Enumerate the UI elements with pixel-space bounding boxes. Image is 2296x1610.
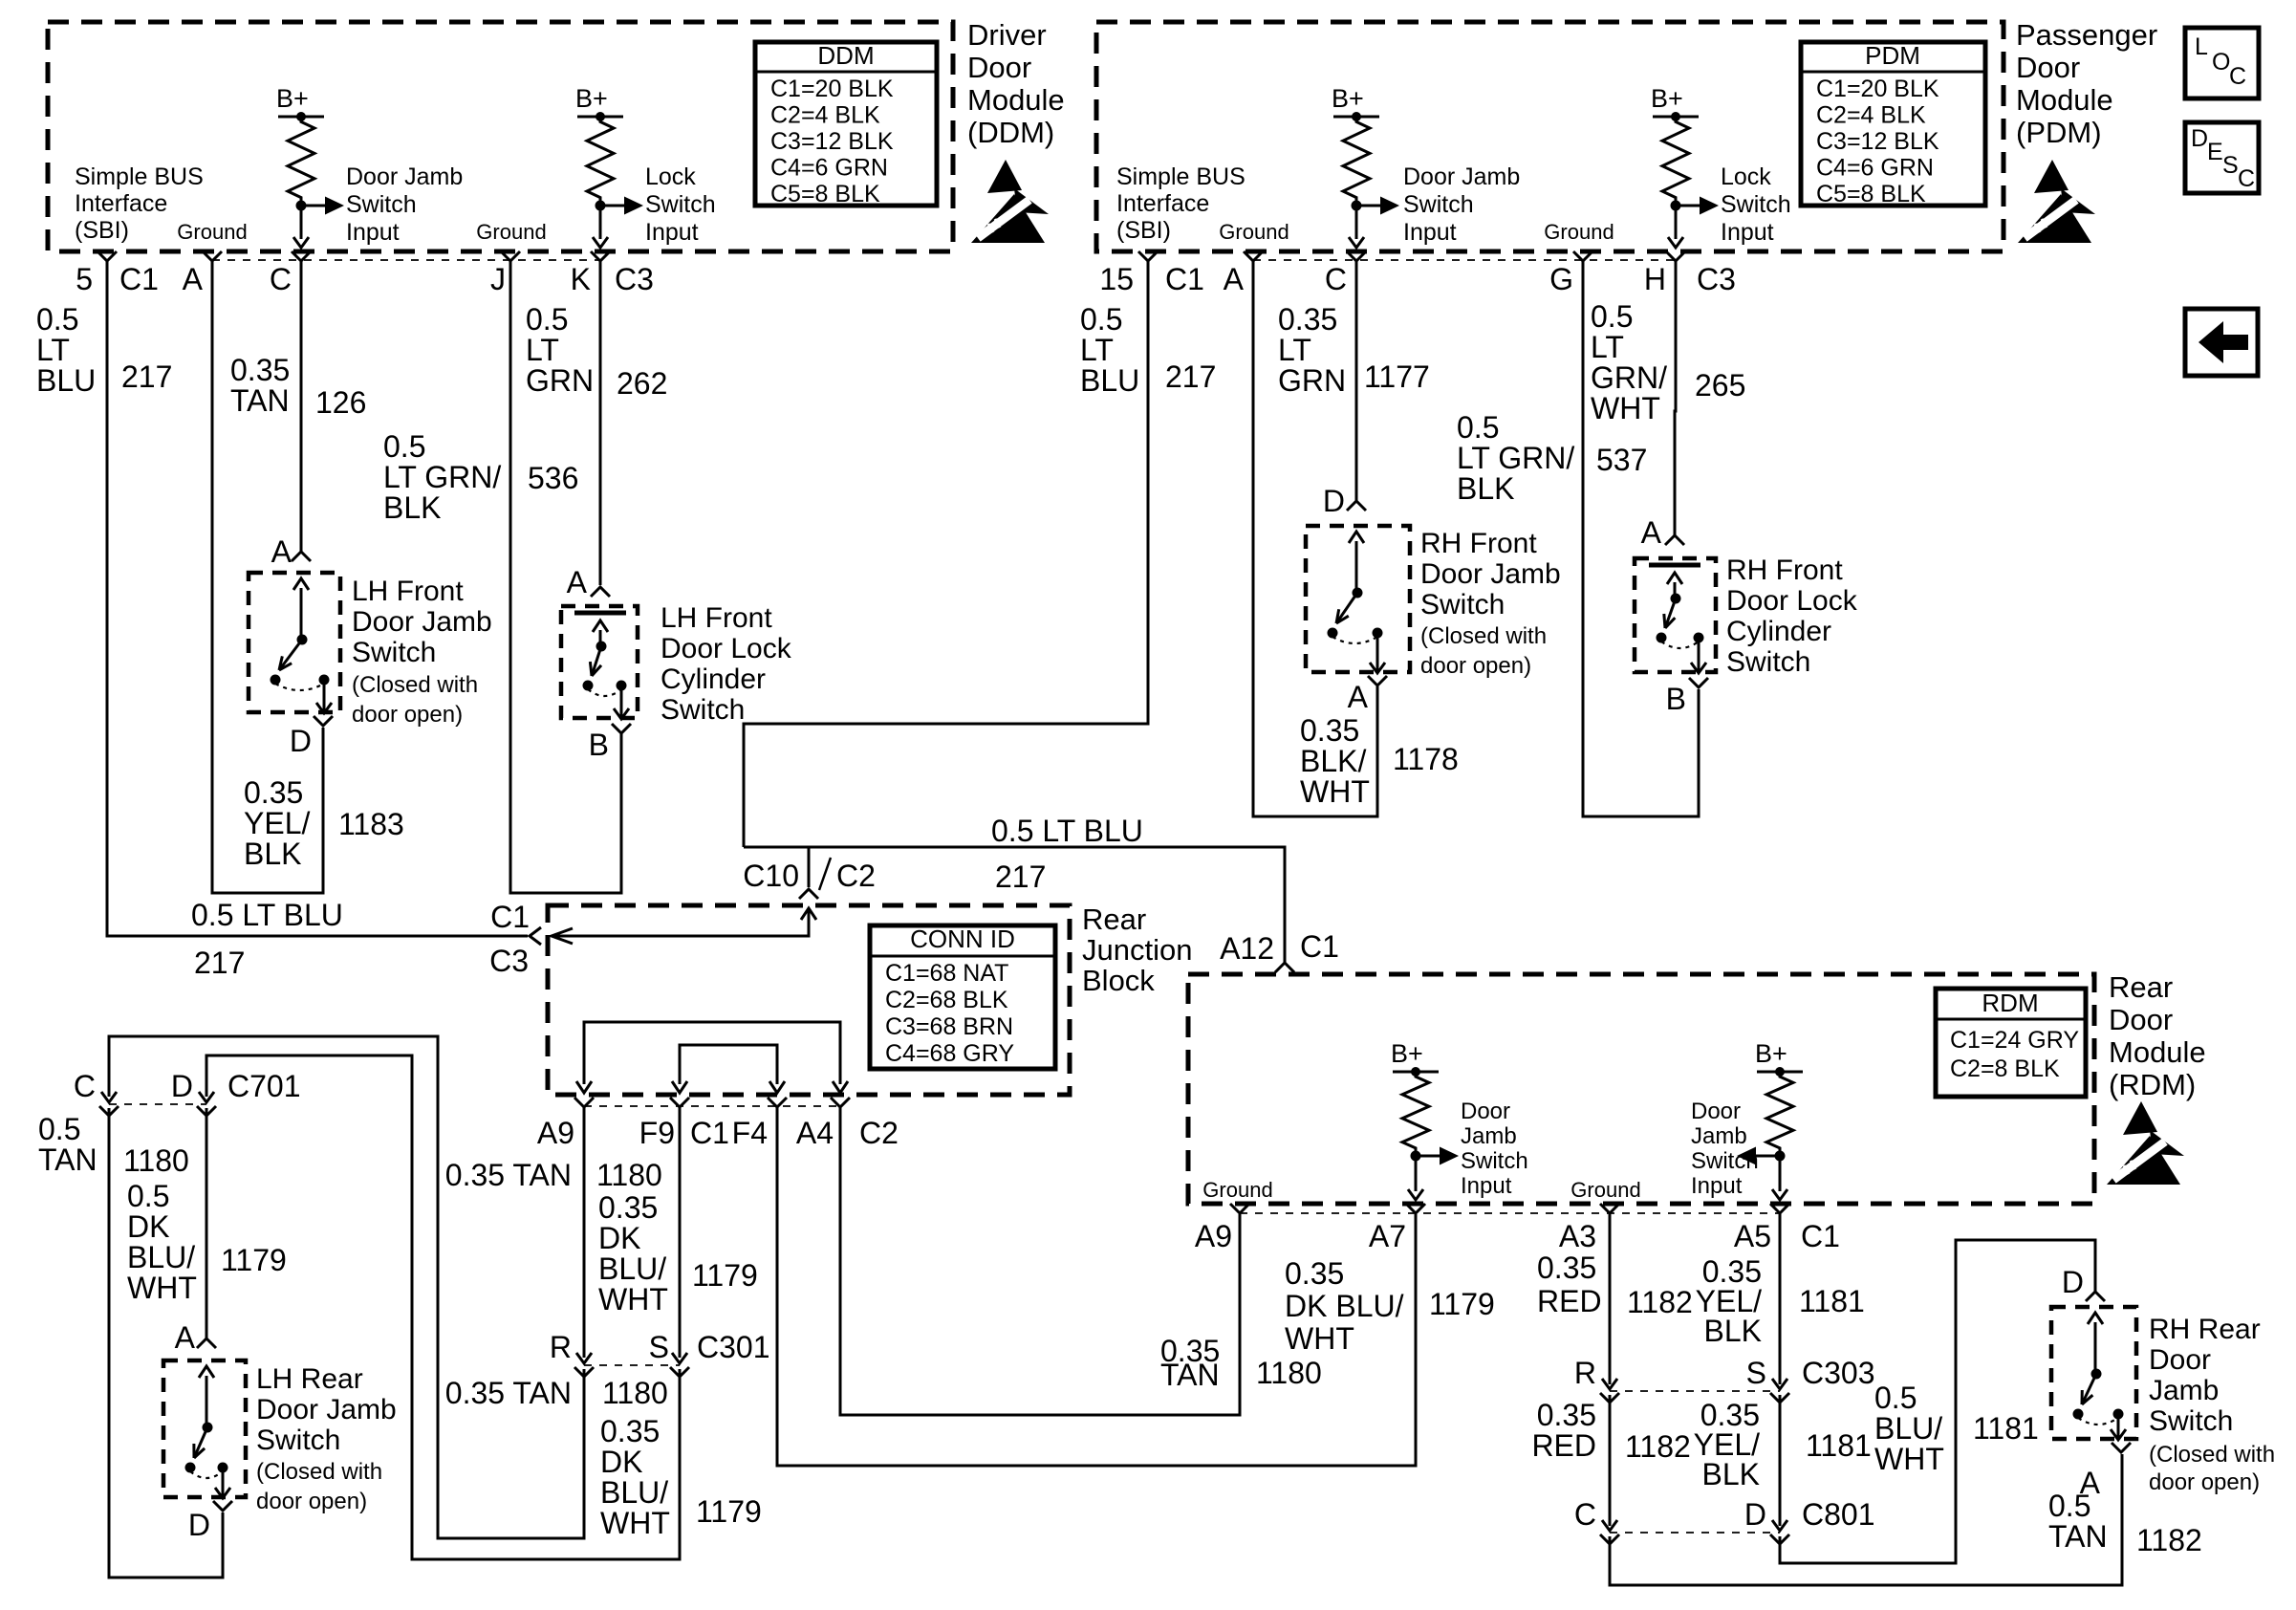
switch LH Front Door Jamb Switch [249, 573, 340, 713]
svg-text:(RDM): (RDM) [2109, 1068, 2196, 1101]
svg-text:C2=68 BLK: C2=68 BLK [885, 987, 1008, 1013]
text 0.5 LT BLU label (horizontal run) [191, 898, 343, 932]
svg-text:Door Jamb: Door Jamb [1420, 558, 1561, 590]
text pin D label (RH front jamb switch) [1323, 484, 1345, 518]
svg-text:0.35: 0.35 [598, 1190, 658, 1225]
node RDM pin A12/C1 chevron [1275, 963, 1294, 972]
wire C303 R to C801 C [1609, 1395, 1612, 1526]
module Rear Junction Block dashed outline [548, 905, 1070, 1095]
text 0.5 LT BLU label (PDM pin 15 wire) [1080, 302, 1139, 398]
resistor DDM lock switch input pull-up [587, 117, 614, 203]
wire arrow Lock Switch Input (PDM) [1676, 197, 1719, 215]
svg-text:GRN: GRN [1278, 363, 1346, 398]
svg-text:WHT: WHT [1874, 1442, 1944, 1476]
text C label (C801) [1574, 1497, 1596, 1532]
svg-text:B+: B+ [1332, 84, 1364, 113]
svg-text:LH Front: LH Front [352, 576, 464, 607]
text 1182 circuit label (A3 wire) [1627, 1285, 1693, 1319]
text 1182 circuit label (below R C303) [1625, 1429, 1691, 1464]
text 217 circuit label (horizontal run) [194, 946, 245, 980]
wire C303 S to C801 D [1779, 1395, 1782, 1526]
svg-text:0.35: 0.35 [1537, 1398, 1596, 1432]
svg-text:B: B [589, 728, 609, 762]
svg-text:Driver: Driver [967, 18, 1047, 52]
svg-text:Switch: Switch [1461, 1148, 1528, 1174]
svg-text:Junction: Junction [1082, 933, 1192, 967]
svg-text:Switch: Switch [2149, 1405, 2233, 1437]
svg-text:(SBI): (SBI) [75, 217, 129, 244]
text closed with door open (LH front jamb) [352, 672, 478, 728]
text Lock Switch Input (DDM) [645, 163, 716, 246]
svg-text:BLU: BLU [1080, 363, 1139, 398]
svg-text:(Closed with: (Closed with [2149, 1442, 2275, 1468]
svg-text:RED: RED [1537, 1284, 1602, 1318]
svg-text:C1=24 GRY: C1=24 GRY [1950, 1027, 2079, 1054]
svg-text:0.5: 0.5 [38, 1112, 80, 1146]
svg-text:C1: C1 [1300, 929, 1339, 964]
svg-text:C301: C301 [697, 1330, 770, 1364]
svg-text:TAN: TAN [38, 1142, 97, 1177]
svg-text:C2=8 BLK: C2=8 BLK [1950, 1055, 2060, 1082]
node junction dot below RDM right resistor [1775, 1151, 1786, 1162]
svg-text:Ground: Ground [177, 220, 247, 244]
svg-text:1182: 1182 [1627, 1285, 1693, 1319]
wire S to bottom loop to C701 D wire [206, 1055, 680, 1559]
svg-text:Jamb: Jamb [2149, 1375, 2219, 1406]
svg-text:0.35: 0.35 [1285, 1256, 1344, 1291]
text pin B label (RH lock cylinder switch) [1666, 682, 1686, 716]
text RDM pin label A9 [1195, 1219, 1232, 1253]
svg-text:A5: A5 [1734, 1219, 1771, 1253]
wire DDM pin A ground loop to LH front jamb switch pin D [212, 261, 323, 893]
svg-text:RDM: RDM [1982, 989, 2038, 1017]
wire DDM pin J ground loop to LH lock cylinder switch pin B [510, 261, 621, 893]
svg-text:217: 217 [121, 359, 172, 394]
svg-text:A: A [1641, 515, 1662, 550]
svg-text:A: A [175, 1320, 196, 1355]
svg-text:D: D [188, 1508, 210, 1542]
text Ground label above PDM pin A [1219, 220, 1289, 244]
svg-text:RH Front: RH Front [1420, 528, 1537, 559]
wire junction block internal bus A9-A4 [576, 1022, 848, 1093]
svg-text:BLK: BLK [383, 490, 441, 525]
text Driver Door Module (DDM) [967, 18, 1065, 149]
wire DDM pin5 serial data 0.5 LT BLU 217 (down/right to junction block C1) [107, 261, 528, 936]
wire C701 C to LH rear switch pin D loop [109, 1108, 223, 1577]
text pin D label (RH rear jamb switch) [2062, 1265, 2084, 1299]
svg-text:Lock: Lock [645, 163, 696, 190]
text C2 label [836, 859, 876, 893]
text pin B label (LH lock cylinder switch) [589, 728, 609, 762]
power B+ for RDM door jamb switch input (right) [1755, 1039, 1803, 1077]
text C1 label at RDM top [1300, 929, 1339, 964]
text LH Front Door Lock Cylinder Switch name [661, 602, 792, 726]
svg-text:1178: 1178 [1393, 742, 1459, 776]
node connector chevron at C1/C3 junction block (wire end) [530, 927, 541, 945]
svg-text:Cylinder: Cylinder [661, 664, 766, 695]
connector face line PDM [1253, 259, 1676, 261]
svg-text:C3=12 BLK: C3=12 BLK [770, 128, 894, 155]
node DDM pin K chevron [591, 251, 610, 261]
svg-text:A: A [1224, 262, 1245, 296]
svg-text:A7: A7 [1369, 1219, 1406, 1253]
text C label (C701) [74, 1069, 96, 1103]
svg-text:126: 126 [315, 385, 366, 420]
text Simple BUS Interface (SBI) in PDM [1116, 163, 1245, 244]
node DDM pin C chevron [292, 251, 311, 261]
svg-text:0.5: 0.5 [383, 429, 425, 464]
svg-text:0.5 LT BLU: 0.5 LT BLU [991, 814, 1143, 848]
svg-text:LT: LT [1080, 333, 1114, 367]
text DDM pin labels K C3 [571, 262, 654, 296]
node LH lock cylinder switch pin A chevron [591, 587, 610, 597]
text A12 label [1220, 931, 1274, 966]
text PDM pin labels 15 C1 [1099, 262, 1204, 296]
wire DDM pin C to LH front door jamb switch pin A [300, 261, 303, 554]
svg-text:PDM: PDM [1865, 41, 1920, 70]
text Rear Junction Block name [1082, 903, 1192, 997]
svg-text:B+: B+ [276, 84, 309, 113]
svg-text:D: D [171, 1069, 193, 1103]
svg-text:(Closed with: (Closed with [256, 1459, 382, 1485]
node inline connector C801 pin D [1770, 1520, 1789, 1544]
svg-text:Input: Input [1721, 219, 1774, 246]
wire junction block internal bus F9-F4 [672, 1045, 785, 1093]
svg-text:0.5: 0.5 [1874, 1381, 1917, 1415]
module DDM (Driver Door Module) dashed outline [48, 22, 953, 251]
text Rear Door Module (RDM) [2109, 970, 2206, 1101]
svg-text:G: G [1549, 262, 1573, 296]
svg-text:door open): door open) [2149, 1469, 2260, 1495]
wire DDM pin K to LH front door lock cylinder switch pin A [599, 261, 602, 585]
svg-text:Switch: Switch [1420, 589, 1505, 620]
node inline connector C301 pin S [670, 1353, 689, 1377]
node inline connector C701 pin D [197, 1092, 216, 1116]
svg-text:0.35: 0.35 [1300, 713, 1359, 748]
svg-text:Door: Door [2109, 1003, 2173, 1036]
svg-text:1177: 1177 [1364, 359, 1430, 394]
svg-text:Rear: Rear [2109, 970, 2173, 1004]
svg-text:Door Jamb: Door Jamb [1403, 163, 1520, 190]
svg-text:BLK: BLK [1702, 1457, 1760, 1491]
text 0.5 BLU/WHT label (1181 loop) [1874, 1381, 1944, 1476]
power B+ for DDM door jamb switch input [276, 84, 324, 121]
svg-text:door open): door open) [1420, 653, 1531, 679]
node inline connector C303 pin R [1600, 1379, 1619, 1403]
svg-text:RH Front: RH Front [1726, 555, 1843, 586]
text D label (C701) [171, 1069, 193, 1103]
power B+ for PDM door jamb switch input [1332, 84, 1379, 121]
text 0.35 DK BLU/WHT label (F9 wire) [598, 1190, 668, 1316]
wire arrow Door Jamb Switch Input (RDM right) [1737, 1147, 1780, 1165]
text 536 circuit label [528, 461, 578, 495]
connector face line DDM C3 [212, 259, 600, 261]
text Ground label above DDM pin J [476, 220, 546, 244]
svg-text:Block: Block [1082, 964, 1155, 997]
wire DDM resistor to pin K with arrowhead [593, 206, 608, 248]
resistor DDM door jamb switch input pull-up [288, 117, 314, 203]
svg-text:C4=6 GRN: C4=6 GRN [770, 155, 888, 182]
svg-text:5: 5 [76, 262, 93, 296]
svg-text:0.5: 0.5 [526, 302, 568, 337]
wire arrow Lock Switch Input (DDM) [600, 197, 643, 215]
svg-text:0.5: 0.5 [1457, 410, 1499, 445]
wire arrow Door Jamb Switch Input (PDM) [1356, 197, 1399, 215]
text 0.35 YEL/BLK label (below S C303) [1694, 1398, 1760, 1491]
wire PDM pin C to RH front door jamb switch pin D [1355, 261, 1358, 503]
text 1182 circuit label (pin A wire) [2136, 1523, 2202, 1557]
text 1181 circuit label (below S C303) [1806, 1428, 1872, 1463]
switch RH Front Door Jamb Switch [1306, 526, 1410, 673]
text 0.35 TAN label (below R) [445, 1376, 572, 1410]
svg-text:217: 217 [194, 946, 245, 980]
module RDM (Rear Door Module) dashed outline [1188, 974, 2094, 1204]
svg-text:Door: Door [1461, 1099, 1510, 1124]
svg-text:DK: DK [598, 1221, 640, 1255]
svg-text:WHT: WHT [1300, 774, 1370, 809]
text LH Rear Door Jamb Switch name [256, 1363, 397, 1456]
svg-text:1183: 1183 [338, 807, 404, 841]
text 0.5 TAN label (pin A wire) [2048, 1489, 2108, 1554]
svg-text:C1=68 NAT: C1=68 NAT [885, 960, 1008, 987]
node junction block pin F9 chevron [670, 1098, 689, 1107]
text Door Jamb Switch Input (RDM right) [1691, 1099, 1759, 1199]
svg-text:L: L [2195, 33, 2208, 60]
text C701 label [227, 1069, 301, 1103]
text PDM pin label C [1325, 262, 1347, 296]
wire PDM pin G ground loop to RH lock cylinder switch pin B [1583, 261, 1699, 816]
svg-text:DK BLU/: DK BLU/ [1285, 1289, 1404, 1323]
text DDM pin label A [183, 262, 204, 296]
text 126 circuit label [315, 385, 366, 420]
text pin A label (LH rear jamb switch) [175, 1320, 196, 1355]
text closed with door open (RH rear jamb) [2149, 1442, 2275, 1495]
svg-text:GRN/: GRN/ [1591, 360, 1667, 395]
svg-text:C1: C1 [1165, 262, 1204, 296]
text 1179 circuit label (RDM A7 wire) [1429, 1287, 1495, 1321]
node LH front jamb switch pin D chevron [314, 716, 333, 726]
svg-text:1181: 1181 [1799, 1284, 1865, 1318]
node arrowhead K into junction block [552, 928, 573, 944]
wire PDM resistor to pin C with arrowhead [1349, 206, 1364, 248]
svg-text:Interface: Interface [1116, 190, 1209, 217]
text 0.5 TAN label (C wire) [38, 1112, 97, 1177]
node junction dot below PDM door jamb resistor [1352, 201, 1362, 211]
svg-text:E: E [2207, 139, 2223, 165]
svg-text:Ground: Ground [476, 220, 546, 244]
svg-text:D: D [1323, 484, 1345, 518]
wire serial data horizontal 0.5 LT BLU 217 to RDM A12 [744, 847, 1285, 963]
text Passenger Door Module (PDM) [2016, 18, 2157, 149]
text 0.35 RED label (below R C303) [1531, 1398, 1596, 1463]
text RDM pin label A3 [1559, 1219, 1596, 1253]
svg-text:Rear: Rear [1082, 903, 1146, 936]
svg-text:F9: F9 [639, 1116, 675, 1150]
svg-text:Cylinder: Cylinder [1726, 616, 1831, 647]
svg-text:D: D [2062, 1265, 2084, 1299]
svg-text:Switch: Switch [661, 694, 745, 726]
svg-text:Door: Door [2016, 51, 2080, 84]
svg-text:A3: A3 [1559, 1219, 1596, 1253]
text Ground label above PDM pin G [1544, 220, 1614, 244]
svg-text:WHT: WHT [598, 1282, 668, 1316]
svg-text:Lock: Lock [1721, 163, 1771, 190]
connector face line junction block bottom [584, 1105, 840, 1107]
svg-text:D: D [290, 724, 312, 758]
node junction dot below RDM left resistor [1411, 1151, 1421, 1162]
svg-text:1179: 1179 [1429, 1287, 1495, 1321]
svg-text:LT GRN/: LT GRN/ [383, 460, 501, 494]
node junction dot below DDM door jamb resistor [296, 201, 307, 211]
svg-text:Ground: Ground [1544, 220, 1614, 244]
node DDM pin A chevron [203, 251, 222, 261]
svg-text:Input: Input [346, 219, 400, 246]
node inline connector C301 pin R [574, 1353, 594, 1377]
svg-text:D: D [1744, 1497, 1766, 1532]
svg-text:door open): door open) [352, 702, 463, 728]
text pin A label (LH lock cylinder switch) [567, 565, 588, 599]
text Door Jamb Switch Input (PDM) [1403, 163, 1520, 246]
svg-text:F4: F4 [732, 1116, 768, 1150]
node RH front jamb switch pin A chevron [1368, 676, 1387, 685]
node DDM pin J chevron [501, 251, 520, 261]
text C10 label [743, 859, 799, 893]
svg-text:217: 217 [1165, 359, 1216, 394]
svg-text:Simple BUS: Simple BUS [1116, 163, 1245, 190]
power B+ for DDM lock switch input [575, 84, 623, 121]
svg-text:262: 262 [617, 366, 667, 401]
svg-text:WHT: WHT [600, 1506, 670, 1540]
wire junction block F9 to S connector [679, 1107, 682, 1358]
svg-text:Switch: Switch [1403, 191, 1474, 218]
svg-text:1179: 1179 [221, 1243, 287, 1277]
node RDM pin A7 chevron [1406, 1204, 1425, 1213]
wire junction block F4 to RDM pin A7 [777, 1107, 1416, 1466]
svg-text:Switch: Switch [352, 637, 436, 668]
svg-text:(PDM): (PDM) [2016, 116, 2102, 149]
svg-text:C701: C701 [227, 1069, 301, 1103]
svg-text:C1: C1 [490, 900, 530, 934]
svg-text:WHT: WHT [1591, 391, 1660, 425]
svg-text:BLK: BLK [1704, 1314, 1762, 1348]
svg-text:BLK: BLK [244, 837, 301, 871]
svg-text:BLK/: BLK/ [1300, 744, 1366, 778]
svg-text:1182: 1182 [1625, 1429, 1691, 1464]
svg-text:A12: A12 [1220, 931, 1274, 966]
text pin A label (RH lock cylinder switch) [1641, 515, 1662, 550]
text 1179 circuit label (below S) [696, 1494, 762, 1529]
text 0.5 LT GRN/WHT label (H wire) [1591, 299, 1667, 425]
svg-text:RH Rear: RH Rear [2149, 1314, 2261, 1345]
text Lock Switch Input (PDM) [1721, 163, 1791, 246]
wire junction block A4 to RDM pin A9 [840, 1107, 1240, 1415]
svg-text:Door Jamb: Door Jamb [352, 606, 492, 638]
wire PDM pin H to RH front door lock cylinder switch pin A [1675, 261, 1676, 537]
svg-text:DK: DK [600, 1445, 642, 1479]
svg-text:Switch: Switch [346, 191, 417, 218]
node C10/C2 inline connector chevron [799, 858, 831, 899]
svg-text:Door: Door [2149, 1344, 2211, 1376]
text C301 label [697, 1330, 770, 1364]
svg-text:(SBI): (SBI) [1116, 217, 1171, 244]
svg-text:BLU/: BLU/ [600, 1475, 668, 1510]
svg-text:Input: Input [1403, 219, 1457, 246]
svg-text:S: S [1746, 1356, 1766, 1390]
svg-text:LH Rear: LH Rear [256, 1363, 363, 1395]
svg-text:Module: Module [2016, 83, 2113, 117]
wire C801 D loop to RH rear switch pin D [1780, 1240, 2095, 1563]
text closed with door open (RH front jamb) [1420, 623, 1547, 679]
svg-text:LH Front: LH Front [661, 602, 772, 634]
legend box DESC [2185, 122, 2259, 193]
text 537 circuit label [1596, 443, 1647, 477]
text 1180 circuit label (A9 wire) [596, 1158, 662, 1192]
node RDM pin A9 chevron [1230, 1204, 1249, 1213]
node LH rear jamb switch pin A chevron [197, 1338, 216, 1348]
svg-text:Switch: Switch [1726, 646, 1810, 678]
svg-text:K: K [571, 262, 591, 296]
svg-text:15: 15 [1099, 262, 1134, 296]
text Door Jamb Switch Input (RDM left) [1461, 1099, 1528, 1199]
text DDM pin label J [490, 262, 506, 296]
svg-text:TAN: TAN [2048, 1519, 2108, 1554]
svg-text:YEL/: YEL/ [244, 806, 310, 840]
text pin A label (RH rear jamb switch) [2080, 1466, 2101, 1500]
resistor RDM door jamb switch input pull-up (left) [1402, 1072, 1429, 1153]
node PDM pin 15 (C1) chevron [1138, 251, 1158, 261]
switch RH Front Door Lock Cylinder Switch [1635, 558, 1716, 673]
svg-text:BLU: BLU [36, 363, 96, 398]
svg-text:C10: C10 [743, 859, 799, 893]
text 1183 circuit label [338, 807, 404, 841]
connector face line C701 [109, 1103, 206, 1105]
svg-text:(Closed with: (Closed with [352, 672, 478, 698]
text DDM pin labels 5 C1 [76, 262, 159, 296]
node junction block pin A4 chevron [831, 1098, 850, 1107]
text 0.5 LT BLU label (DDM pin 5 wire) [36, 302, 96, 398]
svg-text:B+: B+ [1391, 1039, 1423, 1068]
svg-text:0.35: 0.35 [230, 353, 290, 387]
svg-text:C3=68 BRN: C3=68 BRN [885, 1013, 1013, 1040]
text 1179 circuit label (F9 wire) [692, 1258, 758, 1293]
svg-text:Ground: Ground [1570, 1178, 1640, 1202]
svg-text:Door Jamb: Door Jamb [346, 163, 463, 190]
connector face line C303 [1610, 1390, 1780, 1392]
text C1 label at junction block left connector [490, 900, 530, 934]
svg-text:BLU/: BLU/ [127, 1240, 195, 1274]
wire PDM resistor to pin H with arrowhead [1668, 206, 1683, 248]
svg-text:Module: Module [2109, 1035, 2206, 1069]
wire arrow Door Jamb Switch Input (RDM left) [1416, 1147, 1459, 1165]
svg-text:DDM: DDM [817, 41, 874, 70]
wire PDM pin15 serial data 0.5 LT BLU 217 [744, 261, 1148, 847]
text R label (C303) [1574, 1356, 1596, 1390]
svg-text:0.35: 0.35 [1537, 1251, 1596, 1285]
svg-text:Switch: Switch [645, 191, 716, 218]
text 1180 circuit label (C wire) [123, 1143, 189, 1178]
resistor RDM door jamb switch input pull-up (right) [1766, 1072, 1793, 1153]
text 262 circuit label [617, 366, 667, 401]
text S label (C301) [649, 1330, 669, 1364]
svg-text:B+: B+ [1651, 84, 1683, 113]
svg-text:LT: LT [36, 333, 70, 367]
wire RDM right resistor to pin A5 arrowhead [1772, 1156, 1787, 1200]
svg-text:B+: B+ [1755, 1039, 1787, 1068]
svg-text:Ground: Ground [1219, 220, 1289, 244]
switch RH Rear Door Jamb Switch [2051, 1307, 2136, 1440]
ESD symbol RDM [2107, 1101, 2184, 1185]
svg-text:Door: Door [1691, 1099, 1741, 1124]
